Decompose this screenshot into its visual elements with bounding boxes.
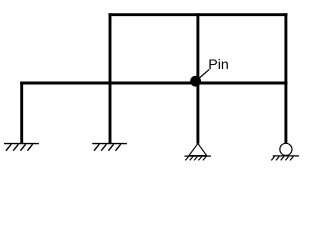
svg-text:Pin: Pin <box>208 57 229 73</box>
